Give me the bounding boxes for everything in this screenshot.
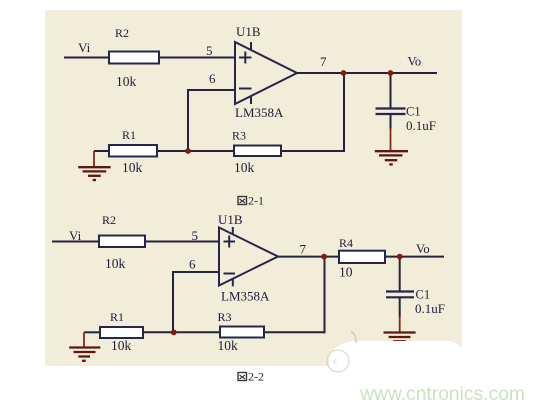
- svg-text:C1: C1: [406, 105, 421, 119]
- svg-text:10k: 10k: [116, 74, 137, 89]
- svg-text:Vi: Vi: [69, 228, 82, 243]
- svg-text:R4: R4: [339, 236, 353, 250]
- svg-text:c: c: [334, 357, 338, 366]
- svg-text:5: 5: [206, 43, 213, 58]
- svg-text:10k: 10k: [105, 256, 126, 271]
- svg-text:2-2: 2-2: [248, 370, 264, 384]
- svg-text:10k: 10k: [218, 338, 239, 353]
- svg-text:7: 7: [300, 242, 307, 257]
- svg-text:U1B: U1B: [218, 212, 243, 227]
- svg-text:R1: R1: [122, 128, 136, 142]
- svg-text:10k: 10k: [122, 160, 143, 175]
- svg-text:R3: R3: [232, 129, 246, 143]
- svg-text:2-1: 2-1: [248, 194, 264, 208]
- svg-text:Vo: Vo: [416, 242, 430, 256]
- svg-text:R2: R2: [102, 213, 116, 227]
- svg-text:10k: 10k: [111, 338, 132, 353]
- svg-text:R2: R2: [115, 26, 129, 40]
- svg-text:6: 6: [209, 71, 216, 86]
- svg-text:U1B: U1B: [236, 24, 261, 39]
- svg-text:C1: C1: [416, 288, 431, 302]
- svg-text:0.1uF: 0.1uF: [406, 118, 436, 133]
- svg-text:7: 7: [320, 54, 327, 69]
- svg-text:LM358A: LM358A: [235, 105, 284, 120]
- svg-text:6: 6: [189, 257, 196, 272]
- svg-text:LM358A: LM358A: [221, 289, 270, 304]
- svg-text:Vi: Vi: [78, 40, 91, 55]
- svg-text:10: 10: [339, 265, 353, 280]
- svg-text:Vo: Vo: [408, 55, 422, 69]
- svg-text:R3: R3: [218, 310, 232, 324]
- svg-text:0.1uF: 0.1uF: [415, 301, 445, 316]
- svg-text:5: 5: [192, 228, 199, 243]
- svg-text:R1: R1: [110, 310, 124, 324]
- svg-text:www.cntronics.com: www.cntronics.com: [359, 384, 525, 405]
- svg-text:10k: 10k: [234, 160, 255, 175]
